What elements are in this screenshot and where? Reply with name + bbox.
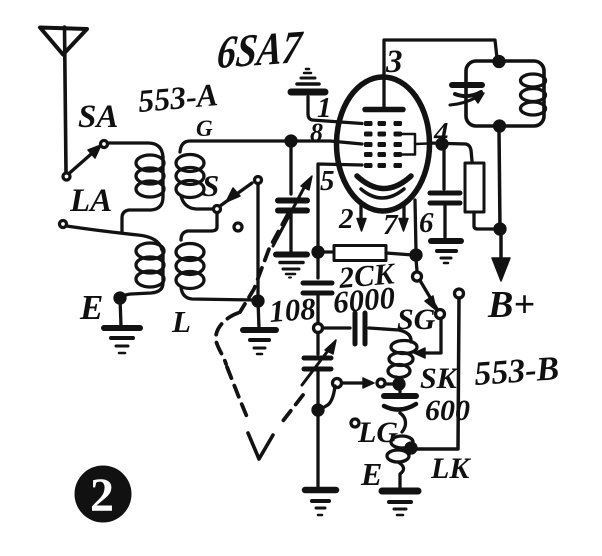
wire LA to coil bbox=[67, 226, 163, 250]
node grid junction bbox=[286, 136, 296, 146]
terminal G of 553-B bbox=[314, 324, 323, 333]
oscillator tank coil box bbox=[466, 61, 544, 126]
wire to C2 bbox=[316, 333, 319, 355]
coil L bbox=[176, 244, 254, 301]
terminal SK top bbox=[455, 289, 464, 298]
tube grid bracket pin4 bbox=[402, 134, 415, 155]
arrow pin2 bbox=[357, 204, 366, 231]
node tank top bbox=[494, 57, 504, 67]
capacitor 600 padder bbox=[384, 388, 416, 432]
ground under S bbox=[243, 301, 276, 354]
node pin4 junction bbox=[437, 139, 447, 149]
arrow C2 variable bbox=[302, 340, 336, 385]
wire pin3 top bbox=[384, 40, 497, 77]
node SK-600 junction bbox=[394, 379, 404, 389]
node SK branch bbox=[313, 405, 323, 415]
svg-text:E: E bbox=[79, 288, 103, 327]
node pin6 junction bbox=[411, 250, 421, 260]
coil LA secondary bbox=[120, 243, 164, 298]
svg-text:8: 8 bbox=[310, 118, 323, 147]
switch SA bbox=[63, 141, 108, 181]
wire G top to tube pin8 bbox=[180, 141, 362, 152]
capacitor C2 variable bbox=[304, 358, 331, 487]
resistor 2CK bbox=[322, 246, 413, 261]
ground under E bbox=[104, 298, 140, 353]
capacitor 6000 bbox=[323, 313, 412, 344]
tank capacitor bbox=[450, 85, 484, 105]
arrow B+ bbox=[492, 233, 510, 281]
terminal LG bbox=[351, 419, 359, 427]
terminal unused bbox=[234, 223, 242, 231]
arrow pin7 bbox=[399, 203, 408, 231]
svg-text:5: 5 bbox=[320, 165, 335, 197]
tube grids bbox=[364, 121, 402, 168]
figure badge 2 bbox=[75, 466, 132, 523]
node E junction bbox=[115, 293, 125, 303]
svg-text:LA: LA bbox=[69, 183, 112, 219]
antenna bbox=[40, 27, 87, 172]
svg-text:SK: SK bbox=[420, 362, 459, 395]
svg-text:7: 7 bbox=[383, 209, 399, 241]
svg-text:6: 6 bbox=[419, 207, 434, 239]
node resistor junction bbox=[313, 247, 323, 257]
tank coil loops bbox=[521, 74, 546, 115]
wire S down bbox=[256, 184, 259, 299]
svg-text:L: L bbox=[171, 304, 191, 339]
tube 6SA7 envelope bbox=[337, 77, 430, 211]
svg-text:G: G bbox=[196, 116, 213, 141]
coil G bbox=[176, 155, 212, 210]
ground under C1 bbox=[276, 255, 307, 278]
svg-text:553-A: 553-A bbox=[136, 76, 219, 119]
svg-text:4: 4 bbox=[433, 117, 449, 149]
svg-text:553-B: 553-B bbox=[473, 350, 560, 393]
coil LA primary bbox=[122, 155, 164, 231]
arrow C1 variable bbox=[273, 176, 312, 246]
svg-text:6SA7: 6SA7 bbox=[215, 22, 306, 79]
coil SK bbox=[388, 341, 417, 383]
capacitor 108 bbox=[303, 283, 332, 323]
wire pin4 bbox=[429, 143, 472, 161]
svg-text:2: 2 bbox=[90, 469, 114, 522]
resistor R2 bbox=[465, 163, 496, 229]
tube cathode arcs bbox=[357, 176, 411, 198]
wire SA to coil LA bbox=[108, 143, 164, 157]
tube anode plate bbox=[365, 78, 403, 110]
capacitor pin4 bypass bbox=[430, 148, 460, 237]
wire tank to B+ bbox=[499, 129, 500, 229]
ground bottom main bbox=[305, 490, 336, 515]
svg-text:6000: 6000 bbox=[332, 280, 397, 320]
switch S bbox=[214, 177, 262, 213]
svg-text:E: E bbox=[360, 456, 382, 492]
svg-text:LG: LG bbox=[357, 416, 398, 449]
svg-text:S: S bbox=[202, 168, 219, 203]
terminal LA bbox=[60, 221, 67, 228]
pin1 bypass ground bbox=[291, 69, 362, 124]
switch SG bbox=[413, 259, 445, 358]
wire pin5 bbox=[318, 164, 362, 278]
wire LK bbox=[415, 298, 459, 449]
svg-text:SA: SA bbox=[78, 99, 118, 135]
dashed gang line bbox=[216, 214, 303, 426]
svg-text:108: 108 bbox=[268, 291, 317, 329]
wire S contact to coil L bbox=[181, 213, 217, 241]
svg-text:LK: LK bbox=[430, 452, 471, 485]
svg-text:B+: B+ bbox=[487, 284, 535, 326]
switch SK wiper bbox=[321, 378, 396, 409]
coil LG bbox=[387, 436, 413, 487]
node L junction bbox=[253, 296, 263, 306]
svg-text:SG: SG bbox=[397, 303, 436, 336]
wire pin6 bbox=[415, 200, 416, 251]
node tank bottom bbox=[495, 121, 505, 131]
capacitor C1 branch bbox=[289, 145, 292, 194]
ground pin4 cap bbox=[431, 241, 461, 263]
svg-text:3: 3 bbox=[385, 44, 403, 80]
svg-text:600: 600 bbox=[425, 394, 470, 427]
arrow gang V bbox=[248, 433, 273, 459]
node B+ junction bbox=[495, 224, 505, 234]
node LK junction bbox=[406, 443, 416, 453]
capacitor C1 bbox=[278, 201, 307, 252]
svg-text:2: 2 bbox=[338, 203, 354, 235]
ground bottom right bbox=[382, 491, 418, 515]
